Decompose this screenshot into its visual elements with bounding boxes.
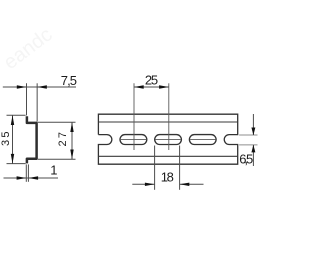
svg-text:25: 25 [145, 73, 158, 88]
svg-text:6,5: 6,5 [239, 152, 253, 167]
svg-text:1: 1 [50, 162, 57, 177]
svg-text:18: 18 [161, 170, 174, 185]
svg-text:7,5: 7,5 [61, 73, 77, 88]
